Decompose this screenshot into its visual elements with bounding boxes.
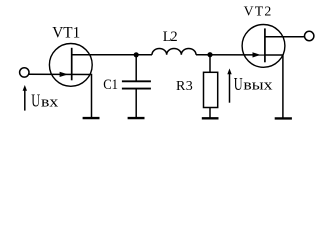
top rail: VT1 drain to inductor [72, 54, 152, 56]
output terminal [305, 31, 314, 40]
node C1 junction [134, 52, 139, 57]
inductor L2 [152, 48, 196, 54]
arrow Uvx [23, 85, 27, 111]
svg-text:C1: C1 [103, 77, 118, 93]
svg-text:VT2: VT2 [244, 4, 272, 19]
ground (C1) [128, 117, 145, 119]
svg-text:R3: R3 [176, 79, 193, 94]
transistor VT1 [49, 44, 95, 87]
capacitor C1 [122, 55, 151, 118]
node R3 junction [207, 52, 212, 57]
svg-text:L2: L2 [163, 29, 178, 45]
arrow Uvyx [227, 68, 231, 102]
wire input to VT1 gate/source [29, 74, 92, 117]
resistor R3 [204, 55, 218, 118]
input terminal [20, 68, 29, 77]
svg-text:U: U [234, 74, 243, 94]
ground (VT1 source) [83, 117, 100, 119]
svg-text:U: U [31, 91, 40, 111]
ground (VT2 source) [275, 117, 292, 119]
transistor VT2 [242, 25, 305, 118]
svg-text:VT1: VT1 [52, 24, 80, 41]
ground (R3) [202, 117, 219, 119]
svg-text:вх: вх [41, 95, 59, 111]
svg-text:вых: вых [243, 78, 273, 94]
top rail: inductor to VT2 gate [196, 54, 265, 56]
